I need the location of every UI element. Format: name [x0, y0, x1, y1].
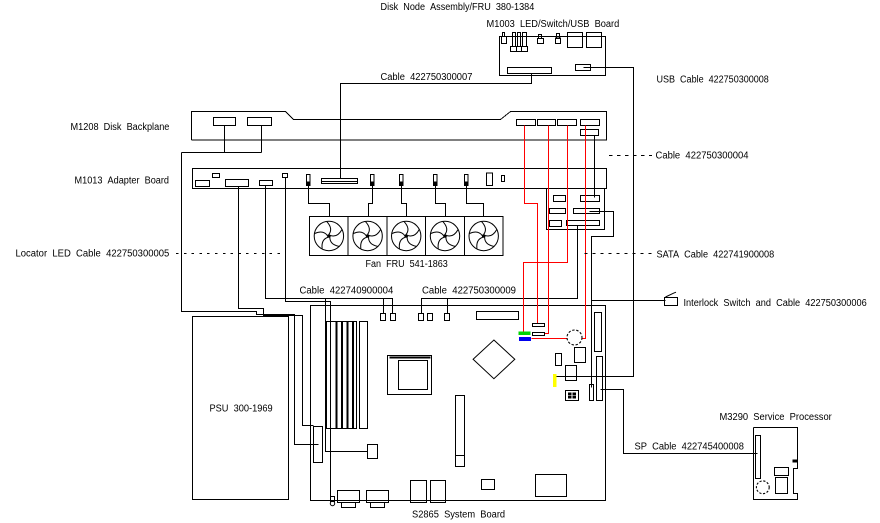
svg-text:S2865 System Board: S2865 System Board — [412, 510, 505, 521]
svg-text:Locator LED Cable 422750300: Locator LED Cable 422750300005 — [16, 249, 170, 260]
svg-text:USB Cable 422750300008: USB Cable 422750300008 — [657, 75, 770, 86]
svg-text:Cable 422750300007: Cable 422750300007 — [381, 72, 473, 83]
svg-text:Cable 422750300009: Cable 422750300009 — [422, 286, 516, 297]
svg-text:M3290 Service Processor: M3290 Service Processor — [720, 412, 833, 423]
svg-text:Disk Node Assembly/FRU 380-: Disk Node Assembly/FRU 380-1384 — [381, 2, 535, 13]
svg-text:SP Cable 422745400008: SP Cable 422745400008 — [635, 442, 745, 453]
svg-text:M1003 LED/Switch/USB Board: M1003 LED/Switch/USB Board — [487, 19, 620, 30]
svg-text:Fan FRU 541-1863: Fan FRU 541-1863 — [366, 259, 449, 270]
svg-text:Cable 422740900004: Cable 422740900004 — [300, 286, 394, 297]
svg-text:M1013 Adapter Board: M1013 Adapter Board — [75, 176, 170, 187]
svg-text:SATA Cable 422741900008: SATA Cable 422741900008 — [657, 250, 775, 261]
svg-text:Interlock Switch and Cable: Interlock Switch and Cable 422750300006 — [684, 298, 868, 309]
svg-text:Cable 422750300004: Cable 422750300004 — [656, 151, 749, 162]
svg-text:M1208 Disk Backplane: M1208 Disk Backplane — [71, 122, 170, 133]
svg-text:PSU 300-1969: PSU 300-1969 — [210, 404, 273, 415]
